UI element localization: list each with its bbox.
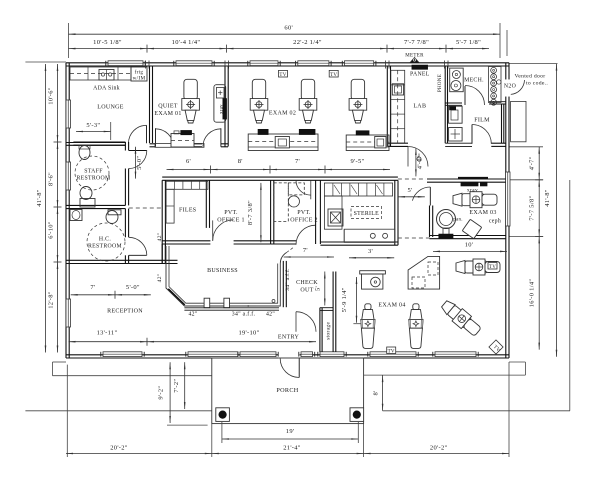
window left wall lounge <box>66 100 71 128</box>
exterior wall left <box>65 63 67 358</box>
exam03 bottom wall <box>430 235 506 237</box>
dim: 3 ft exam04 <box>349 257 394 259</box>
mullion tick 147 <box>145 61 147 69</box>
sterile right wall <box>394 180 396 245</box>
door film: leaf+arc <box>471 125 473 144</box>
svg-text:ENTRY: ENTRY <box>278 335 300 341</box>
svg-text:4'-7": 4'-7" <box>529 156 536 170</box>
chair right bay diagonal <box>439 298 483 339</box>
svg-text:EXAM 02: EXAM 02 <box>269 111 296 117</box>
door arc pvt office1 <box>212 220 214 240</box>
dim: 8'-7 3/8 <box>260 183 262 242</box>
svg-text:PORCH: PORCH <box>276 387 298 394</box>
porch column SW <box>216 408 230 422</box>
dim: 41'-8 right <box>556 64 558 357</box>
exam03 left wall <box>429 206 431 238</box>
svg-text:10'-6": 10'-6" <box>48 87 55 105</box>
svg-text:5'-9 1/4": 5'-9 1/4" <box>341 287 348 312</box>
door arc pvt office2 bottom <box>296 225 316 245</box>
door mech: leaf+arc <box>464 86 466 105</box>
dim: 7 ft checkout <box>284 256 334 258</box>
svg-text:RESTROOM: RESTROOM <box>77 176 111 182</box>
sidewalk line right <box>383 410 570 412</box>
door arc lab <box>407 147 409 167</box>
n2o tank rack <box>489 67 502 103</box>
staff turning circle <box>75 156 109 190</box>
svg-text:OUT: OUT <box>300 288 313 294</box>
svg-text:7'-2": 7'-2" <box>173 379 180 393</box>
door quiet exam01 left: leaf+arc <box>155 128 157 147</box>
svg-text:frig: frig <box>135 69 144 76</box>
svg-text:5'-7 1/8": 5'-7 1/8" <box>456 39 481 46</box>
svg-text:20'-2": 20'-2" <box>430 445 448 452</box>
door arc entry inner <box>295 312 297 332</box>
svg-text:3': 3' <box>368 248 373 255</box>
wall n2o area <box>489 101 506 103</box>
svg-text:34" a.f.f.: 34" a.f.f. <box>284 268 291 291</box>
svg-text:8': 8' <box>373 390 380 395</box>
svg-text:12'-8": 12'-8" <box>48 291 55 309</box>
svg-text:Vented door: Vented door <box>515 74 546 80</box>
checkout/storage right wall <box>332 272 334 353</box>
chair right bay horizontal <box>456 261 465 274</box>
svg-text:TV: TV <box>489 265 496 270</box>
staff restroom top wall <box>73 141 125 143</box>
svg-text:19'-10": 19'-10" <box>238 330 259 337</box>
files shelf left <box>166 189 174 223</box>
meter symbol <box>410 58 419 63</box>
dim: 7 / 5'-0 reception <box>71 294 151 296</box>
window top wall exam02 c <box>345 61 374 66</box>
dim: 21'-4 porch <box>212 453 364 455</box>
svg-text:LAB: LAB <box>413 104 426 110</box>
counter exam02 right items <box>356 131 369 135</box>
door staff restroom: leaf+arc <box>129 150 147 152</box>
sterile left counter <box>324 196 342 229</box>
svg-text:9'-2": 9'-2" <box>158 386 165 400</box>
svg-text:MECH.: MECH. <box>464 78 484 84</box>
restroom right wall <box>124 142 126 151</box>
door exam03: leaf+arc <box>429 187 431 206</box>
files left wall <box>161 180 163 263</box>
exterior wall top <box>66 62 509 64</box>
svg-text:EXAM 01: EXAM 01 <box>154 111 181 117</box>
svg-text:6'-10": 6'-10" <box>48 221 55 239</box>
svg-text:BUSINESS: BUSINESS <box>207 268 238 274</box>
svg-text:42": 42" <box>188 311 197 317</box>
tv box exam02 b <box>329 70 338 77</box>
svg-text:OFFICE 2: OFFICE 2 <box>290 218 318 224</box>
svg-text:7'-7 5/8": 7'-7 5/8" <box>529 195 536 220</box>
svg-text:PHONE: PHONE <box>438 74 443 92</box>
stoop outside vented door <box>511 101 526 141</box>
hc toilet <box>106 211 118 224</box>
wall film bottom (y143) <box>445 142 472 144</box>
wall exam02/lab (x388) <box>386 67 388 147</box>
hc sink <box>70 210 82 221</box>
door hc restroom: leaf+arc <box>129 254 147 256</box>
svg-text:5': 5' <box>407 187 412 194</box>
svg-text:7': 7' <box>295 158 300 165</box>
desk pvt office2 (dashed) <box>274 183 289 222</box>
files bottom wall <box>162 240 210 242</box>
right site boundary vertical <box>569 180 571 411</box>
office block top wall <box>162 176 398 178</box>
svg-text:10'-5 1/8": 10'-5 1/8" <box>93 39 122 46</box>
quiet exam01 bottom wall segs <box>150 143 156 145</box>
stool exam03 <box>462 219 481 238</box>
counter exam02 long <box>248 134 318 151</box>
wall mech bottom (y103) <box>445 102 462 104</box>
tv diamond right <box>489 340 503 354</box>
exterior wall bottom west segment <box>66 354 278 356</box>
chair exam04 a <box>365 304 371 310</box>
wall files/pvt office1 <box>205 180 207 228</box>
svg-text:7'-7 7/8": 7'-7 7/8" <box>404 39 429 46</box>
xray unit exam04 <box>360 271 386 274</box>
window left wall staff <box>66 162 71 190</box>
svg-text:42": 42" <box>266 311 275 317</box>
dashed line corridor to exam03 wall <box>398 178 426 180</box>
svg-text:41'-8": 41'-8" <box>544 189 551 207</box>
svg-text:STAFF: STAFF <box>84 169 103 175</box>
svg-text:FILES: FILES <box>179 207 197 213</box>
arrow on business wall <box>242 305 249 307</box>
svg-text:pan.: pan. <box>453 218 463 223</box>
lounge sink <box>99 70 114 81</box>
svg-text:8'-7 3/8": 8'-7 3/8" <box>247 200 254 225</box>
svg-text:RESTROOM: RESTROOM <box>88 244 122 250</box>
svg-text:TV: TV <box>388 350 395 355</box>
svg-text:PVT.: PVT. <box>224 210 238 216</box>
dim: 60 ft overall top <box>69 33 501 35</box>
pvt office2 bottom wall <box>271 240 296 242</box>
svg-text:PANEL: PANEL <box>410 72 430 78</box>
pvt office1 bottom wall <box>234 240 271 242</box>
counter quiet exam strip <box>155 144 204 148</box>
porch column SE <box>350 408 364 422</box>
dashed line sterile-exam03 <box>398 237 431 239</box>
dim right chain: 4'-7 / 7'-7 5/8 / 16'-0 1/4 <box>538 147 540 350</box>
dim: 20'-2 east <box>364 453 509 455</box>
business counter outline <box>166 246 287 306</box>
svg-text:ADA Sink: ADA Sink <box>93 86 120 92</box>
cart exam04 <box>408 256 440 289</box>
window top wall exam02 a <box>250 61 278 66</box>
chair exam02 b <box>301 79 314 100</box>
svg-text:41'-8": 41'-8" <box>36 189 43 207</box>
svg-text:5': 5' <box>315 286 322 291</box>
door arc pvt office2 top <box>310 180 312 199</box>
roof overhang outline left <box>53 361 67 363</box>
svg-text:EXAM 03: EXAM 03 <box>469 210 496 216</box>
svg-text:OFFICE 1: OFFICE 1 <box>217 218 245 224</box>
dim corridor: 6/8/7/9-5 <box>167 169 391 171</box>
window bottom wall d <box>320 352 344 357</box>
svg-text:TV: TV <box>330 73 337 78</box>
sterile autoclave <box>328 209 343 226</box>
dim: 8 ft right of porch <box>382 375 384 411</box>
storage left wall <box>319 308 321 352</box>
svg-text:20'-2": 20'-2" <box>110 445 128 452</box>
svg-text:RECEPTION: RECEPTION <box>107 309 143 315</box>
panel box <box>412 65 428 69</box>
svg-text:60': 60' <box>284 25 293 32</box>
svg-text:22'-2 1/4": 22'-2 1/4" <box>293 39 322 46</box>
window bottom wall f <box>435 352 476 357</box>
hall-files connector wall <box>161 244 163 264</box>
svg-text:FILM: FILM <box>474 118 490 124</box>
hall wall y261.5 <box>129 259 178 261</box>
lab counter <box>391 70 405 143</box>
dim: 9'-2 <box>169 362 171 423</box>
svg-text:4'-0": 4'-0" <box>417 155 424 169</box>
mullion tick 446 <box>444 61 446 69</box>
dim: 10 ft exam03 <box>433 250 507 252</box>
film cabinet b <box>449 128 463 142</box>
svg-text:ceph: ceph <box>489 219 501 225</box>
window left wall reception <box>66 299 71 327</box>
dim: 13'-11 / 19'-10 above bottom wall <box>69 341 317 343</box>
dim: 5 ft checkout v <box>324 272 326 306</box>
svg-text:42": 42" <box>157 274 163 283</box>
dim: 5'-9 1/4 <box>356 277 358 323</box>
dashed corner business <box>287 247 295 253</box>
door entry/porch: leaf+arc <box>298 359 300 378</box>
sterile bottom counter <box>344 229 395 242</box>
window bottom wall e <box>370 352 416 357</box>
dim: 41'-8 left <box>45 64 47 353</box>
staff toilet <box>80 187 92 200</box>
chair exam04 b <box>413 304 419 310</box>
svg-text:8'-6": 8'-6" <box>48 172 55 186</box>
roof overhang outline right <box>509 361 525 363</box>
svg-text:7': 7' <box>90 284 95 291</box>
extension lines bottom dims <box>66 365 68 457</box>
tv box exam02 a <box>279 70 288 77</box>
dim: 4'-0 vertical <box>415 148 417 176</box>
window top wall exam02 b <box>298 61 329 66</box>
storage top wall <box>320 307 333 309</box>
svg-text:LOUNGE: LOUNGE <box>97 105 123 111</box>
svg-text:5'-0": 5'-0" <box>126 284 140 291</box>
mullion tick 387 <box>385 61 387 69</box>
svg-text:storage: storage <box>326 321 332 339</box>
svg-text:TV: TV <box>279 73 286 78</box>
mech equipment <box>450 68 464 92</box>
exterior wall right <box>505 63 507 358</box>
chair exam03 <box>453 193 462 206</box>
left extension line at top <box>25 61 66 63</box>
svg-text:5'-0": 5'-0" <box>136 156 143 170</box>
fridge box <box>131 67 147 81</box>
film cabinet a <box>449 106 463 123</box>
counter quiet exam unit <box>171 134 194 148</box>
dim: 20'-2 west <box>66 453 212 455</box>
lounge counter <box>70 67 131 80</box>
restroom divider wall <box>66 204 125 206</box>
chair exam02 a <box>252 79 265 100</box>
pano machine <box>437 210 456 229</box>
chair pvt office2 <box>288 196 299 207</box>
tv box right bay <box>488 263 497 270</box>
wall pvt office1/office2 <box>270 180 272 244</box>
wall lounge/quiet exam (x150) <box>149 67 151 144</box>
mullion tick 227 <box>224 61 226 69</box>
chair quiet exam <box>184 79 197 100</box>
dim extension line top-left <box>68 23 70 58</box>
svg-text:6': 6' <box>186 158 191 165</box>
svg-text:21'-4": 21'-4" <box>283 445 301 452</box>
right dim extension top <box>509 63 558 65</box>
window bottom wall c <box>240 352 276 357</box>
counter exam02 right <box>346 135 389 151</box>
svg-text:10'-4 1/4": 10'-4 1/4" <box>172 39 201 46</box>
svg-text:EXAM 04: EXAM 04 <box>378 303 405 309</box>
door lounge: leaf+arc <box>146 125 148 143</box>
counter exam02 long items <box>258 129 268 134</box>
corridor dashed line <box>129 207 162 209</box>
sidewalk line left <box>25 410 211 412</box>
sterile top counter <box>324 183 392 196</box>
lab bottom wall <box>388 142 408 144</box>
chair exam02 c <box>351 79 364 100</box>
wall quiet/exam02 (x226) <box>224 67 226 147</box>
window bottom wall b <box>188 352 238 357</box>
wall pvt office2 right (x318) <box>315 180 317 244</box>
svg-text:to code..: to code.. <box>526 81 548 87</box>
window bottom wall a <box>103 352 142 357</box>
exterior wall bottom east segment <box>300 354 509 356</box>
dim: 19 ft porch columns <box>222 438 358 440</box>
svg-text:CHECK: CHECK <box>296 280 318 286</box>
svg-text:13'-11": 13'-11" <box>97 330 118 337</box>
dim extension line top-right <box>499 23 501 58</box>
wall phone/mech/film left (x446) <box>444 67 446 144</box>
hc restroom bottom wall <box>66 259 129 261</box>
dim: 7'-2 <box>184 362 186 409</box>
dim: 5 ft sterile <box>398 196 425 198</box>
sterile bottom wall <box>320 241 398 243</box>
exam03 top wall <box>427 178 506 180</box>
xray wall unit quiet/exam02 <box>214 85 226 123</box>
dim: 5'-3 lounge <box>76 131 111 133</box>
svg-text:7': 7' <box>303 247 308 254</box>
9'-2 reference line <box>167 424 208 426</box>
right chain extension lines <box>509 146 543 148</box>
svg-text:5'-3": 5'-3" <box>86 122 100 129</box>
business counter bumps <box>204 298 210 308</box>
vented door opening cover <box>505 80 510 97</box>
lab equipment box <box>392 84 403 95</box>
svg-text:42": 42" <box>157 233 163 242</box>
lounge bottom wall <box>66 142 125 144</box>
door quiet exam01 right: leaf+arc <box>220 128 222 147</box>
film bottom wall right seg <box>491 142 506 144</box>
staff sink <box>79 146 90 160</box>
film room right wall <box>501 104 503 143</box>
window right wall exam03 <box>506 172 511 226</box>
files shelf top <box>166 181 208 189</box>
vented door swing arc <box>511 80 525 94</box>
window top wall lounge <box>108 61 143 66</box>
svg-text:9'-5": 9'-5" <box>351 158 365 165</box>
dim left inner chain: 10'-6 / 8'-6 / 6'-10 / 12'-8 <box>57 64 59 353</box>
tv box exam04 <box>387 347 396 354</box>
business front wall <box>184 307 279 309</box>
svg-text:10': 10' <box>465 242 474 249</box>
label STERILE dashed box <box>351 207 382 219</box>
svg-text:H.C.: H.C. <box>99 237 111 243</box>
svg-text:19': 19' <box>286 428 295 435</box>
dim: 5'-0 hall <box>135 147 137 179</box>
window bottom wall c2 <box>301 352 313 357</box>
svg-text:34" a.f.f.: 34" a.f.f. <box>232 310 256 317</box>
svg-text:STERILE: STERILE <box>354 211 379 217</box>
xray counter exam03 <box>458 177 488 179</box>
dim row2 top: 10'-5 1/8 / 10'-4 1/4 / 22'-2 1/4 / 7'-7 7/8 / 5'-7 1/8 <box>69 48 490 50</box>
svg-text:w/IM: w/IM <box>133 76 146 82</box>
hc turning circle <box>87 223 125 261</box>
svg-text:16'-0 1/4": 16'-0 1/4" <box>529 279 536 308</box>
svg-text:QUIET: QUIET <box>158 104 178 110</box>
svg-text:PVT.: PVT. <box>297 210 311 216</box>
svg-text:8': 8' <box>238 158 243 165</box>
svg-text:N2O: N2O <box>504 84 516 90</box>
porch outline <box>212 358 364 424</box>
checkout counter left wall <box>282 261 284 307</box>
window top wall quiet exam <box>176 61 212 66</box>
